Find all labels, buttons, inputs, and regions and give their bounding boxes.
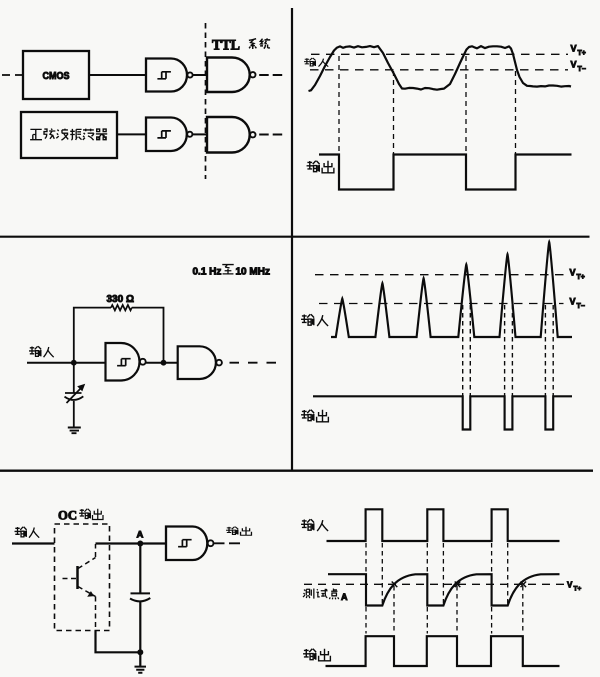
svg-text:OC: OC	[58, 508, 77, 523]
svg-text:A: A	[341, 592, 348, 602]
svg-text:CMOS: CMOS	[43, 70, 70, 82]
svg-text:V: V	[571, 44, 577, 54]
svg-text:T+: T+	[574, 586, 582, 593]
svg-text:V: V	[570, 268, 576, 278]
svg-text:0.1 Hz: 0.1 Hz	[193, 267, 222, 278]
svg-text:V: V	[570, 297, 576, 307]
svg-text:TTL: TTL	[212, 38, 240, 54]
svg-text:V: V	[571, 60, 577, 70]
svg-text:10 MHz: 10 MHz	[236, 267, 270, 278]
svg-text:330 Ω: 330 Ω	[107, 294, 134, 305]
svg-text:T+: T+	[577, 274, 585, 281]
svg-text:T−: T−	[577, 303, 585, 310]
svg-text:V: V	[567, 581, 573, 590]
svg-text:T−: T−	[578, 66, 586, 73]
svg-text:T+: T+	[578, 50, 586, 57]
svg-text:A: A	[137, 530, 144, 541]
